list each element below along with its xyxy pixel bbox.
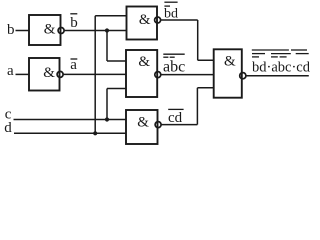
svg-text:&: &	[139, 12, 151, 28]
overline mid over cd term	[296, 53, 309, 55]
gate G6 NAND box	[214, 49, 242, 97]
svg-text:a: a	[7, 63, 14, 79]
gate G4 output bubble	[155, 72, 161, 78]
wire G3 output horizontal	[161, 19, 198, 21]
wire bbar branch vertical	[106, 31, 108, 62]
overline inner over b of bd	[164, 5, 170, 7]
gate G1 NAND inverter box	[29, 15, 61, 45]
wire d branch to G3 input1	[95, 15, 126, 17]
overline inner over b of bd term	[252, 56, 259, 58]
wire G3 output vertical down	[197, 20, 199, 60]
overline inner over b of abc term	[280, 56, 287, 58]
gate G3 NAND box	[127, 7, 158, 40]
wire b input	[16, 30, 30, 32]
wire bbar from G1 to G3	[64, 30, 126, 32]
svg-text:abc: abc	[163, 59, 185, 76]
wire G5 output vertical up	[196, 88, 198, 125]
wire bbar branch to G4 input1	[107, 60, 126, 62]
wire G4 output to G6 input2	[161, 74, 214, 76]
overline inner over b of abc	[170, 56, 175, 58]
wire d input to G5	[14, 132, 126, 134]
wire G5 output horizontal	[161, 124, 197, 126]
gate G2 NAND inverter box	[29, 58, 60, 91]
wire into G6 input3	[197, 87, 213, 89]
svg-text:b: b	[70, 15, 78, 31]
gate G3 output bubble	[155, 17, 161, 23]
overline mid over abc term	[271, 53, 291, 55]
gate G2 output bubble	[57, 71, 63, 77]
junction bbar branch	[105, 28, 109, 32]
svg-text:&: &	[224, 54, 236, 70]
overline inner over a of abc	[163, 56, 168, 58]
wire into G6 input1	[198, 59, 214, 61]
svg-text:cd: cd	[168, 110, 183, 126]
overline outer of cd	[168, 108, 183, 110]
svg-text:bd·abc·cd: bd·abc·cd	[252, 59, 311, 75]
svg-text:d: d	[4, 120, 12, 136]
wire c branch vertical	[106, 89, 108, 120]
overline of abar label	[71, 58, 78, 60]
wire c branch to G4 input3	[107, 88, 126, 90]
wire abar from G2 to G4 input2	[63, 73, 126, 75]
junction c branch	[105, 117, 109, 121]
overline outer segment2	[291, 49, 307, 51]
overline outer of abc	[163, 53, 184, 55]
gate G5 output bubble	[155, 122, 161, 128]
wire c input to G5	[14, 119, 127, 121]
gate G5 NAND box	[126, 110, 158, 144]
wire final output	[246, 75, 309, 77]
svg-text:&: &	[138, 54, 150, 70]
wire a input	[16, 73, 30, 75]
junction d branch	[93, 131, 97, 135]
overline of bbar label	[70, 13, 77, 15]
node bbar label	[70, 15, 78, 31]
svg-text:&: &	[137, 115, 149, 131]
overline outer of bd	[164, 1, 177, 3]
svg-text:&: &	[43, 65, 55, 81]
svg-text:&: &	[44, 22, 56, 38]
overline inner over a of abc term	[271, 56, 278, 58]
svg-text:b: b	[7, 22, 15, 38]
gate G4 NAND box	[126, 50, 157, 97]
overline outer segment1	[252, 49, 289, 51]
overline mid over bd term	[252, 53, 265, 55]
wire d branch vertical	[94, 16, 96, 134]
gate G1 output bubble	[58, 28, 64, 34]
gate G6 output bubble	[240, 73, 246, 79]
